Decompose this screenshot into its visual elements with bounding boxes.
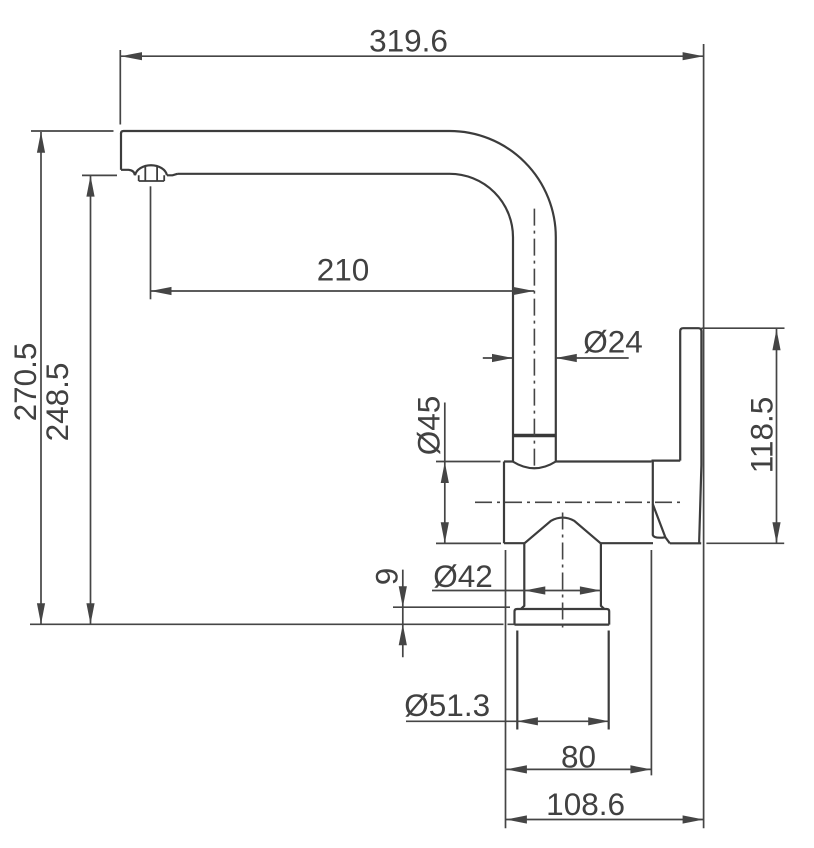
svg-text:248.5: 248.5 <box>39 363 75 442</box>
aerator dome <box>135 165 167 175</box>
aerator inner ticks <box>145 167 157 181</box>
handle skirt bottom <box>670 542 701 544</box>
deck line <box>30 623 515 625</box>
dim 108.6 line <box>506 819 704 821</box>
dim Ø45 line <box>444 403 446 544</box>
label 108.6 <box>546 786 625 822</box>
arrowheads dim 80 <box>506 765 652 773</box>
label 80 <box>561 739 596 775</box>
arrowheads dim 319.6 <box>121 52 704 60</box>
body cone transition <box>525 518 601 544</box>
arrowheads dim Ø42 <box>524 586 601 594</box>
label 118.5 <box>743 397 779 474</box>
label Ø24 <box>583 324 643 360</box>
base stem right <box>601 543 605 609</box>
label 319.6 <box>369 23 448 59</box>
dim 80 line <box>506 768 652 770</box>
svg-text:118.5: 118.5 <box>743 397 779 474</box>
dim Ø24 lines <box>483 357 629 359</box>
dim 248.5 extension line <box>82 174 117 176</box>
svg-text:Ø45: Ø45 <box>411 396 447 456</box>
svg-text:108.6: 108.6 <box>546 786 625 822</box>
svg-text:Ø24: Ø24 <box>583 324 643 360</box>
dim 210 extension line <box>150 186 152 299</box>
below-deck shank <box>517 631 608 730</box>
arrowheads dim 248.5 <box>86 176 94 625</box>
body pipe socket arc <box>513 462 556 469</box>
dim 9 extension line <box>393 606 510 608</box>
dim 319.6 line <box>121 55 704 57</box>
body centerline <box>475 501 682 503</box>
svg-text:80: 80 <box>561 739 596 775</box>
dim 270.5 line <box>40 132 42 624</box>
dim 9 line <box>402 570 404 658</box>
arrowheads dim 9 <box>399 586 407 645</box>
label Ø51.3 <box>404 687 490 723</box>
arrowheads dim Ø24 <box>492 354 577 362</box>
arrowheads dim 270.5 <box>37 132 45 624</box>
handle lever diagonal <box>653 504 670 543</box>
dim Ø45 extension lines <box>436 462 501 544</box>
body bottom edge <box>504 542 653 544</box>
pipe joint band <box>513 434 556 438</box>
label 270.5 <box>7 343 43 422</box>
handle column <box>680 328 701 543</box>
handle cap step <box>652 460 681 462</box>
dim 319.6 extension lines <box>120 44 703 828</box>
dim 118.5 line <box>776 329 778 543</box>
label 9 <box>369 568 405 586</box>
stem centerline <box>562 513 564 630</box>
spout tip underside <box>121 170 178 176</box>
arrowheads dim 108.6 <box>506 815 704 823</box>
arrowheads dim 118.5 <box>772 329 780 543</box>
svg-text:270.5: 270.5 <box>7 343 43 422</box>
svg-text:319.6: 319.6 <box>369 23 448 59</box>
label 210 <box>317 252 370 288</box>
body right face <box>653 462 666 538</box>
dim Ø51.3 line <box>406 720 609 722</box>
faucet spout outer profile <box>121 131 556 462</box>
svg-text:Ø51.3: Ø51.3 <box>404 687 490 723</box>
spout tip left edge <box>120 133 122 170</box>
dim Ø42 line <box>432 590 601 592</box>
label 248.5 <box>39 363 75 442</box>
svg-text:9: 9 <box>369 568 405 586</box>
dim 270.5 extension line <box>31 130 114 132</box>
dim 118.5 extension lines <box>701 328 784 543</box>
body left edge <box>503 462 505 544</box>
faucet spout inner profile <box>178 174 514 462</box>
dim 210 line <box>151 290 535 292</box>
dim 248.5 line <box>90 176 92 624</box>
arrowheads dim Ø51.3 <box>517 717 609 725</box>
base stem left <box>521 543 525 609</box>
aerator skirt <box>139 175 165 181</box>
label Ø45 <box>411 396 447 456</box>
base flange <box>515 609 610 625</box>
body top edge <box>504 460 652 462</box>
arrowheads dim Ø45 <box>441 462 449 543</box>
arrowheads dim 210 <box>151 287 535 295</box>
label Ø42 <box>433 558 493 594</box>
svg-text:Ø42: Ø42 <box>433 558 493 594</box>
svg-text:210: 210 <box>317 252 370 288</box>
pipe centerline <box>533 209 535 466</box>
dim 80 extension lines <box>506 550 652 828</box>
